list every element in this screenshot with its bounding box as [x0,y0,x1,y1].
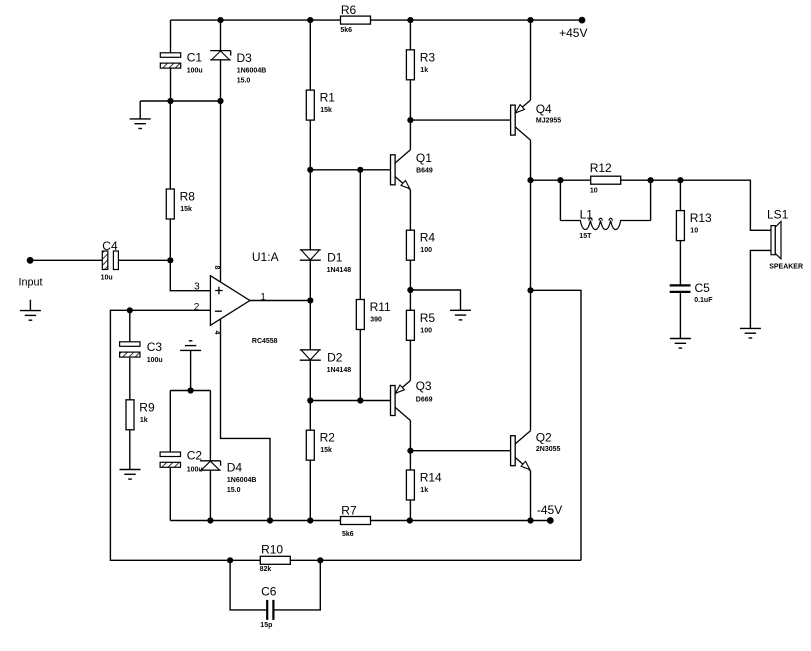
wire Q2 base [410,450,510,452]
zener diode D3 [210,51,266,85]
svg-text:B649: B649 [416,167,433,174]
node Input terminal [27,257,34,264]
wire Q1 emitter to R4 node [409,190,411,290]
svg-text:15k: 15k [180,206,192,213]
svg-text:D3: D3 [237,51,253,65]
wire R1 column [309,20,311,250]
wire C2 bottom lead [169,468,171,521]
capacitor C2 [160,448,203,473]
svg-text:C5: C5 [695,281,711,295]
svg-text:L1: L1 [580,207,594,221]
wire input ground stem [29,300,31,311]
wire Q4 emitter lead [530,20,532,100]
svg-text:C2: C2 [187,448,203,462]
node Q2 emitter rail junction [527,517,533,523]
svg-text:1N4148: 1N4148 [327,367,352,374]
wire R4 R5 node to ground [410,290,460,310]
svg-text:D1: D1 [327,250,343,264]
capacitor C1 [160,50,202,74]
node R2 rail junction [307,517,313,523]
svg-text:2: 2 [194,302,200,313]
diode D1 [300,250,351,274]
wire input to C4 [30,259,102,261]
svg-text:R6: R6 [341,3,357,17]
wire +45V top rail [171,19,583,21]
svg-text:R5: R5 [420,311,436,325]
svg-text:1k: 1k [140,417,148,424]
node -45V terminal [547,517,554,524]
svg-text:15.0: 15.0 [227,487,241,494]
node C2 D4 ground junction [188,387,194,393]
capacitor C4 [101,239,119,281]
svg-text:D4: D4 [227,461,243,475]
svg-text:D669: D669 [416,397,433,404]
wire C5 to ground [679,292,681,339]
svg-text:Q4: Q4 [536,102,552,116]
svg-text:MJ2955: MJ2955 [536,117,561,124]
node feedback tap junction [527,287,533,293]
wire C6 right leg [273,560,320,610]
svg-text:Q2: Q2 [536,431,552,445]
ground (C2 D4 node, flipped) [180,341,201,351]
svg-text:15p: 15p [260,622,272,629]
svg-text:R2: R2 [320,431,336,445]
wire R11 column [359,170,361,401]
node R3 top rail junction [407,17,413,23]
node R14 rail junction [407,517,413,523]
svg-text:C1: C1 [187,50,203,64]
node Q3 base left junction [307,397,313,403]
wire D4 bottom lead [209,470,211,520]
capacitor C5 [670,281,714,304]
svg-text:1k: 1k [420,487,428,494]
svg-text:15k: 15k [320,447,332,454]
wire D4 top lead [209,391,211,461]
resistor R10 [260,543,291,574]
node Q2 base junction [407,448,413,454]
svg-text:Q1: Q1 [416,151,432,165]
node D3 ground junction [217,98,223,104]
wire R8 column to pin 3 [170,101,210,291]
svg-text:+45V: +45V [559,26,587,40]
node Q1 base left junction [307,167,313,173]
node C4 R8 junction [167,257,173,263]
wire D3 top lead [220,20,222,50]
svg-text:C3: C3 [147,340,163,354]
svg-text:Q3: Q3 [416,379,432,393]
wire C3 to R9 to ground [129,358,131,470]
wire Q3 base line [310,400,390,402]
inductor L1 [560,207,650,240]
wire op-amp output [250,300,310,302]
zener diode D4 [200,461,256,495]
wire C6 left leg [230,560,267,610]
node D3 top rail junction [217,17,223,23]
resistor R14 [406,470,442,500]
resistor R3 [406,50,435,80]
node inverting input C3 tap [127,307,133,313]
svg-text:5k6: 5k6 [340,27,352,34]
svg-text:100: 100 [420,247,432,254]
svg-text:1N4148: 1N4148 [327,267,352,274]
transistor Q1 [391,150,433,190]
wire mid ground stem [190,350,192,390]
svg-text:1k: 1k [420,67,428,74]
svg-text:100: 100 [420,327,432,334]
resistor R4 [406,230,435,260]
transistor Q3 [391,379,433,420]
svg-text:100u: 100u [187,67,203,74]
svg-text:R13: R13 [690,211,712,225]
ground (R4 R5 node) [450,310,471,320]
node R1 top rail junction [307,17,313,23]
resistor R5 [406,310,435,340]
svg-text:1: 1 [260,292,266,303]
wire D1 to D2 [309,260,311,350]
node Q4 emitter rail junction [527,17,533,23]
svg-text:390: 390 [370,317,382,324]
wire feedback riser [531,290,582,560]
svg-text:Input: Input [19,277,43,289]
ground (R9) [120,470,141,480]
wire -45V rail [170,520,550,522]
node op-amp output junction [307,297,313,303]
wire D2 to R2 to -45V rail [309,360,311,520]
svg-text:10u: 10u [101,274,113,281]
wire C3 top lead [129,310,131,342]
svg-text:3: 3 [194,282,200,293]
svg-text:SPEAKER: SPEAKER [769,263,803,270]
wire L1 left leg [559,180,561,220]
capacitor C3 [120,340,163,364]
wire C4 to non-inverting node [118,259,170,261]
svg-text:R12: R12 [590,161,612,175]
svg-text:R8: R8 [180,190,196,204]
svg-text:R14: R14 [420,471,442,485]
ground (input) [20,311,41,321]
svg-text:4: 4 [213,331,220,335]
resistor R6 [340,3,370,34]
svg-text:LS1: LS1 [767,208,789,222]
svg-text:-45V: -45V [537,503,562,517]
wire C1 top lead [170,20,172,53]
svg-text:8: 8 [213,266,220,270]
wire ground spur [140,100,220,102]
svg-text:1N6004B: 1N6004B [227,477,257,484]
ground (C1 node) [130,119,151,129]
wire Q2 emitter lead [530,471,532,521]
ground (C5) [670,339,691,349]
svg-text:R1: R1 [320,91,336,105]
wire D3 cathode to op-amp pin 8 [220,60,222,282]
wire speaker return to ground [750,250,771,328]
diode D2 [300,350,351,374]
node R11 bottom junction [357,397,363,403]
node R11 top junction [357,167,363,173]
wire L1 right leg [650,180,652,220]
wire op-amp pin 4 to -45V rail [221,319,271,521]
speaker LS1 [767,208,803,271]
svg-text:2N3055: 2N3055 [536,446,561,453]
wire R3 column [409,20,411,150]
resistor R8 [166,189,195,219]
svg-text:1N6004B: 1N6004B [237,68,267,75]
svg-text:RC4558: RC4558 [252,338,278,345]
wire Q1 base line [310,169,390,171]
wire ground stem [139,101,141,119]
svg-text:10: 10 [690,228,698,235]
wire output rail to speaker [531,180,772,230]
svg-text:100u: 100u [147,357,163,364]
resistor R12 [590,161,621,195]
wire C2 top lead [169,391,171,453]
resistor R13 [676,211,712,241]
wire C1 bottom lead [170,68,172,101]
node +45V terminal [579,17,586,24]
node R10 C6 left junction [227,557,233,563]
transistor Q4 [511,100,562,140]
svg-text:C6: C6 [261,584,277,598]
op-amp U1:A [194,250,279,345]
node Q4 base junction [407,117,413,123]
wire R5 column [409,290,411,381]
wire C2 D4 top edge [170,390,210,392]
svg-text:15k: 15k [320,107,332,114]
wire Q3 collector to R14 [409,421,411,521]
node R12 L1 left junction [557,177,563,183]
resistor R1 [306,90,335,120]
wire R13 column [679,180,681,285]
svg-text:R7: R7 [341,504,357,518]
node R4 R5 junction [407,287,413,293]
svg-text:10: 10 [590,188,598,195]
svg-text:0.1uF: 0.1uF [694,297,713,304]
node pin4 rail junction [267,517,273,523]
node C1 ground junction [167,98,173,104]
ground (LS1) [740,328,761,338]
node R10 C6 right junction [317,557,323,563]
svg-text:15T: 15T [579,233,592,240]
svg-text:D2: D2 [327,350,343,364]
transistor Q2 [511,431,561,471]
capacitor C6 [260,584,276,629]
svg-text:R4: R4 [420,231,436,245]
node D4 rail junction [207,517,213,523]
resistor R9 [126,400,155,430]
svg-text:82k: 82k [260,566,272,573]
svg-text:R11: R11 [370,300,391,314]
svg-text:R9: R9 [139,400,155,414]
svg-text:5k6: 5k6 [342,531,354,538]
resistor R11 [356,300,391,330]
resistor R2 [306,430,335,460]
svg-text:C4: C4 [102,239,118,253]
svg-text:R3: R3 [420,50,436,64]
svg-text:R10: R10 [261,543,283,557]
wire Q4 base [410,119,510,121]
wire output column [530,140,532,431]
wire pin 2 feedback run [110,310,581,560]
node R12 L1 right junction [648,177,654,183]
node output junction [527,177,533,183]
svg-text:U1:A: U1:A [252,250,279,264]
resistor R7 [341,504,371,538]
node R13 tap junction [677,177,683,183]
svg-text:15.0: 15.0 [237,78,251,85]
